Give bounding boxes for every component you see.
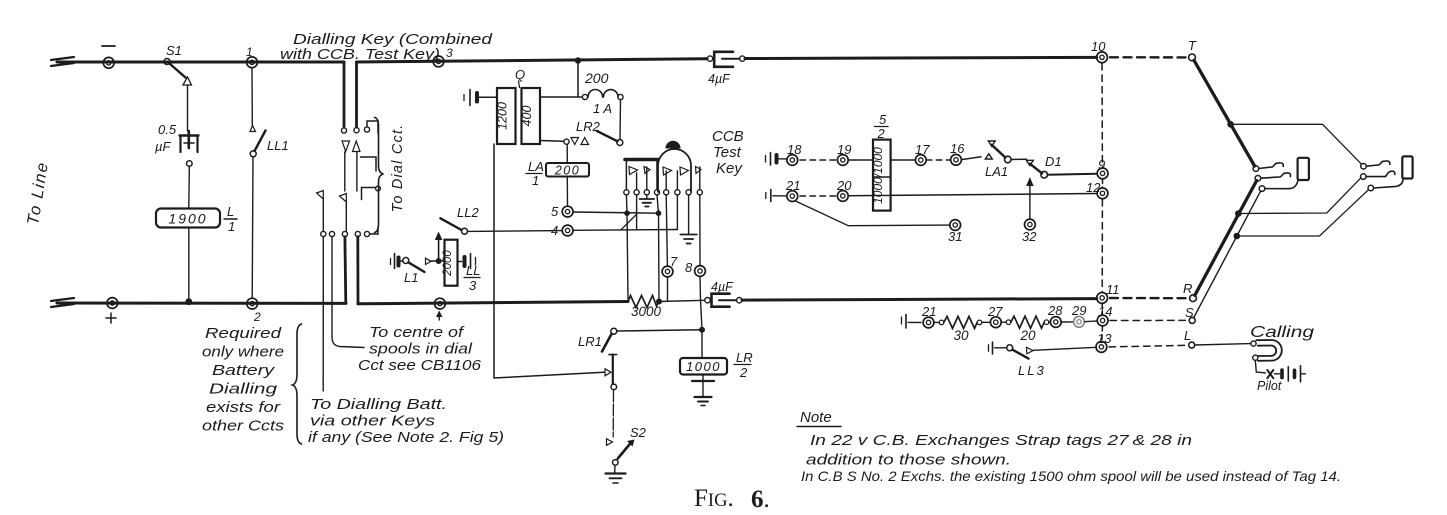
wire leader to spools note bbox=[332, 237, 364, 348]
continuation marks top-left bbox=[51, 57, 74, 66]
wire S1 to capacitor bbox=[187, 85, 189, 131]
dialling key lower contact group bbox=[322, 199, 324, 231]
bank contact flags inside arch bbox=[663, 167, 672, 175]
wire top trunk right of capacitor bbox=[745, 57, 1097, 58]
svg-text:3000: 3000 bbox=[631, 304, 662, 319]
bank pin right bbox=[696, 167, 702, 174]
relay coil LA/1 200 bbox=[546, 163, 589, 177]
wire dashed 17-16 bbox=[926, 159, 950, 161]
svg-text:0.5: 0.5 bbox=[158, 122, 177, 137]
svg-text:To Dial Cct.: To Dial Cct. bbox=[390, 124, 406, 213]
resistor 3000 bbox=[628, 296, 659, 308]
jack (calling) spring S to bush bbox=[1368, 185, 1374, 191]
wire thick dashed 11 to R bbox=[1110, 297, 1187, 300]
svg-text:4µF: 4µF bbox=[708, 72, 731, 86]
svg-text:L: L bbox=[1184, 328, 1191, 343]
wire to dialling battery (left) bbox=[322, 237, 324, 391]
svg-text:2000: 2000 bbox=[442, 250, 454, 277]
wire 1900 to bottom trunk bbox=[188, 228, 190, 302]
svg-text:L1: L1 bbox=[404, 270, 418, 285]
svg-text:R: R bbox=[1183, 281, 1192, 296]
svg-text:20: 20 bbox=[1019, 328, 1036, 343]
svg-text:Required: Required bbox=[205, 326, 282, 342]
svg-text:T: T bbox=[1188, 38, 1197, 53]
battery cell (tag 18) bbox=[765, 156, 767, 163]
wire LL3 to terminal 13 bbox=[1033, 347, 1096, 350]
junction dot on S line bbox=[1234, 233, 1241, 240]
svg-text:In 22 v C.B. Exchanges Strap: In 22 v C.B. Exchanges Strap tags 27 & 2… bbox=[810, 432, 1192, 449]
wire transformer top to coil bbox=[540, 96, 582, 98]
wire dashed vertical 9-12 bbox=[1102, 180, 1104, 188]
svg-text:200: 200 bbox=[584, 70, 609, 86]
svg-text:addition to those shown.: addition to those shown. bbox=[806, 452, 1011, 469]
bank arch bbox=[658, 149, 691, 192]
junction dot bbox=[624, 210, 630, 216]
svg-text:spools in dial: spools in dial bbox=[369, 342, 473, 358]
wire bank v7 to ground bbox=[688, 195, 690, 234]
svg-text:LL: LL bbox=[466, 263, 480, 278]
wire bank v8 to terminal 8 bbox=[699, 195, 701, 266]
wire 20 through box to terminal 12 bbox=[848, 194, 1097, 196]
terminal minus (top-left) bbox=[103, 57, 114, 68]
contact S2 chain bbox=[611, 384, 617, 390]
brace Required-only bbox=[293, 324, 302, 444]
svg-text:13: 13 bbox=[1097, 331, 1112, 346]
wire dashed vertical 12-11 bbox=[1101, 200, 1103, 292]
ground below S2 bbox=[606, 472, 626, 474]
svg-text:5: 5 bbox=[551, 204, 559, 219]
svg-text:200: 200 bbox=[554, 164, 580, 178]
svg-text:Cct see CB1106: Cct see CB1106 bbox=[358, 358, 482, 374]
wire bank v2 bbox=[636, 195, 638, 230]
capacitor 4uF (top) bbox=[707, 56, 712, 61]
wire LR2 to LA coil bbox=[566, 144, 568, 163]
svg-text:3: 3 bbox=[446, 46, 453, 60]
svg-text:LA: LA bbox=[528, 159, 544, 174]
svg-text:To centre of: To centre of bbox=[369, 325, 465, 341]
continuation marks bottom-left bbox=[51, 298, 74, 307]
svg-text:LL2: LL2 bbox=[457, 205, 479, 220]
relay coil LR/2 1000 bbox=[680, 358, 727, 375]
wire LL1 to terminal 2 bbox=[251, 157, 254, 298]
junction dot top trunk bbox=[575, 57, 581, 63]
svg-text:To Dialling Batt.: To Dialling Batt. bbox=[310, 397, 447, 413]
wire to capacitor bbox=[659, 300, 705, 301]
terminal arrow (bottom trunk) bbox=[435, 298, 446, 309]
svg-text:32: 32 bbox=[1022, 229, 1037, 244]
svg-text:only where: only where bbox=[202, 345, 284, 361]
terminal 2 (bottom) bbox=[247, 298, 258, 309]
svg-text:1900: 1900 bbox=[168, 211, 207, 227]
wire bank v4 bbox=[657, 195, 659, 299]
wire node 5 line bbox=[573, 212, 659, 213]
dialling key upper contact group bbox=[341, 128, 346, 133]
ground (bank left) bbox=[646, 195, 648, 199]
wire dashed 14 to S bbox=[1110, 319, 1187, 321]
junction dot bbox=[656, 210, 662, 216]
wire coil to LR2 bbox=[619, 100, 622, 140]
svg-text:12: 12 bbox=[1086, 180, 1101, 195]
wire dashed 21-20 bbox=[800, 195, 837, 197]
svg-text:if any (See Note 2. Fig 5): if any (See Note 2. Fig 5) bbox=[308, 430, 504, 446]
bank spring circles bbox=[624, 190, 629, 195]
ground (bank right) bbox=[680, 234, 696, 236]
wire 29-14 bbox=[1085, 320, 1098, 323]
svg-text:other Ccts: other Ccts bbox=[202, 419, 284, 435]
bank dome button bbox=[665, 141, 680, 149]
wire 21 to 31 bbox=[796, 201, 950, 226]
svg-text:LL3: LL3 bbox=[1018, 363, 1046, 378]
wire tap to right jack spring 2 bbox=[1238, 178, 1361, 214]
jack (calling) bush bbox=[1402, 156, 1412, 178]
wire 32 arrow up bbox=[1029, 185, 1031, 219]
svg-text:S2: S2 bbox=[630, 425, 647, 440]
contact LL3 bbox=[988, 345, 990, 352]
junction dot bbox=[185, 298, 192, 305]
svg-text:In C.B S No. 2 Exchs. the exi: In C.B S No. 2 Exchs. the existing 1500 … bbox=[801, 468, 1341, 484]
svg-text:4µF: 4µF bbox=[711, 280, 734, 294]
junction dot on T line bbox=[1227, 121, 1234, 128]
svg-text:1000: 1000 bbox=[686, 359, 721, 374]
svg-text:1: 1 bbox=[532, 173, 539, 188]
svg-text:Test: Test bbox=[713, 144, 742, 161]
svg-text:16: 16 bbox=[950, 141, 965, 156]
wire 28-29 bbox=[1061, 321, 1073, 323]
svg-text:2: 2 bbox=[739, 365, 748, 380]
brace To Dial Cct bbox=[375, 118, 384, 233]
contact LL1 bbox=[250, 126, 256, 132]
terminal 31 bbox=[950, 220, 961, 231]
transformer Q winding 400 bbox=[522, 88, 541, 144]
wire LR1 to junction bbox=[617, 330, 702, 331]
bank contact flags left group bbox=[629, 167, 638, 175]
wire thick dashed 10 to T bbox=[1110, 56, 1187, 59]
wire tap to right jack spring 1 bbox=[1231, 124, 1362, 164]
wire top trunk left segment bbox=[57, 61, 344, 64]
svg-text:exists for: exists for bbox=[206, 400, 281, 416]
wire bottom trunk mid segment bbox=[358, 302, 628, 304]
svg-text:S1: S1 bbox=[166, 43, 182, 58]
wire LA coil to terminal 5 bbox=[566, 177, 568, 207]
battery cell (tag 21 strap row) bbox=[901, 317, 903, 324]
terminal 32 bbox=[1025, 219, 1036, 230]
wire LA1 to D1 bbox=[1011, 158, 1026, 160]
wire bottom trunk right segment bbox=[742, 299, 1097, 301]
junction dot bbox=[699, 327, 705, 333]
wire bank v6 bbox=[676, 195, 678, 230]
jack (calling) spring R bbox=[1361, 174, 1367, 180]
jack (answering) spring S to bush bbox=[1259, 186, 1265, 192]
CCB key bank top bar bbox=[625, 158, 658, 162]
wire top trunk right segment bbox=[357, 59, 708, 62]
contact LA1 bbox=[962, 157, 981, 160]
junction dot bbox=[656, 299, 662, 305]
svg-text:µF: µF bbox=[155, 139, 171, 154]
svg-text:Note: Note bbox=[800, 409, 832, 426]
jack (calling) spring T bbox=[1361, 164, 1367, 170]
svg-text:D1: D1 bbox=[1045, 154, 1062, 169]
jack (answering) spring T bbox=[1253, 166, 1259, 172]
wire transformer drop bbox=[494, 144, 604, 378]
lamp pilot with battery bbox=[1255, 360, 1265, 373]
svg-text:Dialling: Dialling bbox=[209, 382, 277, 398]
svg-text:3: 3 bbox=[469, 278, 477, 293]
svg-text:LR1: LR1 bbox=[578, 334, 602, 349]
wire dashed vertical 10-9 bbox=[1101, 64, 1103, 168]
resistor L/1 1900 bbox=[156, 209, 220, 228]
svg-text:Key: Key bbox=[716, 160, 743, 177]
wire box to 17 bbox=[891, 159, 916, 161]
jack (answering) spring R bbox=[1255, 176, 1261, 182]
wire node 4 line bbox=[573, 229, 677, 232]
battery cell (tag 21) bbox=[765, 193, 767, 199]
resistor 20 bbox=[1001, 321, 1006, 323]
svg-text:28: 28 bbox=[1047, 303, 1063, 318]
junction dot on R line bbox=[1235, 210, 1242, 217]
wire dashed vertical 11-14 bbox=[1101, 304, 1103, 315]
battery cell (right of 2000) bbox=[458, 261, 462, 263]
wire D1 to terminal 9 bbox=[1048, 173, 1098, 176]
wire dashed 18-19 bbox=[800, 159, 837, 161]
svg-text:LA1: LA1 bbox=[985, 164, 1008, 179]
svg-text:5: 5 bbox=[879, 112, 887, 127]
wire top trunk drop left bbox=[343, 62, 346, 127]
svg-text:1200: 1200 bbox=[496, 102, 510, 130]
wire LL2 to terminal 4 bbox=[468, 230, 563, 233]
svg-text:via other Keys: via other Keys bbox=[310, 414, 435, 430]
wire down to LL1 bbox=[251, 68, 253, 125]
wire capacitor to 1900 bbox=[187, 161, 193, 167]
svg-text:LL1: LL1 bbox=[267, 138, 289, 153]
retard coil LL/3 2000 bbox=[445, 240, 458, 286]
contact L1 bbox=[390, 259, 392, 265]
svg-text:1 A: 1 A bbox=[593, 101, 612, 116]
ground below LR coil bbox=[702, 375, 704, 381]
wire key to bottom trunk right bbox=[356, 237, 359, 304]
wire dashed 13 to L bbox=[1109, 345, 1186, 347]
svg-text:6.: 6. bbox=[751, 486, 770, 513]
svg-text:30: 30 bbox=[953, 328, 969, 343]
svg-text:Q: Q bbox=[515, 67, 525, 82]
svg-text:400: 400 bbox=[520, 106, 534, 127]
terminal 3 bbox=[433, 56, 444, 67]
svg-text:1: 1 bbox=[228, 219, 235, 234]
svg-text:11: 11 bbox=[1106, 282, 1120, 297]
wire heavy T line bbox=[1194, 60, 1255, 166]
wire bank v1 to resistor bbox=[626, 195, 628, 299]
svg-text:L: L bbox=[227, 204, 234, 219]
wire heavy R line bbox=[1195, 181, 1257, 296]
wire tap to right jack spring 3 bbox=[1237, 190, 1369, 236]
svg-text:Pilot: Pilot bbox=[1257, 379, 1282, 393]
svg-text:Calling: Calling bbox=[1250, 324, 1314, 341]
wire dashed vertical 14-13 bbox=[1101, 327, 1104, 341]
svg-text:CCB: CCB bbox=[712, 128, 744, 145]
wire trunk to coil bbox=[577, 61, 579, 98]
wire bank v5 to terminal 7 bbox=[666, 195, 667, 266]
svg-text:LR: LR bbox=[736, 350, 753, 365]
battery cell (transformer left) bbox=[463, 95, 465, 101]
svg-text:Battery: Battery bbox=[212, 363, 275, 379]
wire 19 to coil box bbox=[848, 159, 873, 161]
terminal plus (bottom-left) bbox=[107, 298, 118, 309]
wire terminal 8 to LR coil bbox=[701, 300, 703, 358]
junction dot + arrow up bbox=[436, 258, 442, 264]
svg-text:2: 2 bbox=[253, 310, 261, 324]
wire diagonal link bbox=[621, 214, 637, 230]
wire S line bbox=[1194, 191, 1261, 318]
wire top trunk drop right bbox=[355, 62, 358, 127]
jack (answering) bush bbox=[1298, 158, 1309, 180]
resistor 30 bbox=[934, 321, 939, 323]
svg-text:31: 31 bbox=[948, 229, 962, 244]
wire key to bottom trunk left bbox=[343, 237, 347, 303]
wire bottom trunk left segment bbox=[57, 302, 346, 305]
svg-text:8: 8 bbox=[685, 260, 693, 275]
